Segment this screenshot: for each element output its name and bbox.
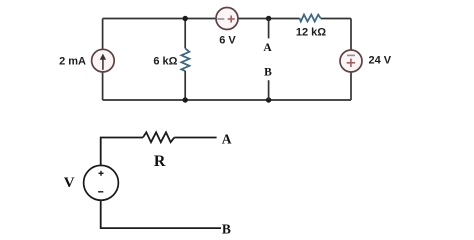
svg-text:6 V: 6 V xyxy=(219,34,236,46)
node junction dot top-left (6k top) xyxy=(183,16,188,21)
svg-text:12 kΩ: 12 kΩ xyxy=(296,26,326,38)
wire middle branch lower lead (6 kOhm) xyxy=(184,71,186,100)
wire bottom lead from source V to terminal B xyxy=(101,200,221,228)
svg-text:V: V xyxy=(64,175,75,191)
voltage source V2 24V circle xyxy=(340,50,362,72)
svg-text:6 kΩ: 6 kΩ xyxy=(153,55,177,67)
wire right branch (through 24V source) xyxy=(350,19,352,101)
wire top lead from source V to resistor R xyxy=(101,138,143,166)
V minus sign xyxy=(98,191,103,193)
current source arrow xyxy=(102,59,104,70)
svg-text:A: A xyxy=(222,131,232,146)
resistor R 6k zigzag xyxy=(181,48,189,71)
node junction dot bottom-left (6k bottom) xyxy=(183,97,188,102)
wire stub terminal B xyxy=(268,80,270,100)
wire from resistor R to terminal A xyxy=(174,137,216,139)
wire middle branch upper lead (6 kOhm) xyxy=(184,19,186,49)
node junction dot top-right (A branch top) xyxy=(266,16,271,21)
svg-text:A: A xyxy=(263,42,272,54)
wire left branch (through current source) xyxy=(102,19,104,101)
wire stub terminal A xyxy=(268,19,270,39)
svg-text:R: R xyxy=(154,153,166,170)
svg-text:B: B xyxy=(222,222,231,235)
voltage source V1 6V circle xyxy=(216,8,238,30)
24V plus sign xyxy=(347,62,355,64)
resistor R zigzag xyxy=(143,132,174,142)
node junction dot bottom-right (B branch bottom) xyxy=(266,97,271,102)
wire bottom rail of circuit 1 xyxy=(103,99,351,101)
wire top-right segment after 12k resistor xyxy=(321,18,352,20)
svg-text:2 mA: 2 mA xyxy=(59,56,86,68)
svg-text:B: B xyxy=(264,67,272,79)
6V minus sign xyxy=(217,18,224,20)
24V minus sign xyxy=(347,54,355,56)
resistor R 12k zigzag xyxy=(299,15,320,22)
svg-text:24 V: 24 V xyxy=(369,55,392,67)
voltage source V circle xyxy=(84,165,119,200)
6V plus sign xyxy=(228,18,235,20)
current source I1 2mA circle xyxy=(92,49,115,72)
V plus sign xyxy=(99,172,104,174)
wire top (node between sources, top rail of circuit 1) xyxy=(103,18,300,20)
